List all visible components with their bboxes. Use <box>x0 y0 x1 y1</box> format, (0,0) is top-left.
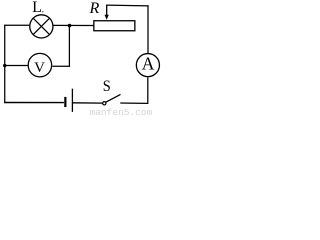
wire: battery to switch <box>72 102 102 104</box>
wire: voltmeter branch vertical <box>68 26 70 67</box>
wire: bottom rail right (switch to right rail) <box>120 102 148 104</box>
speck after L <box>42 11 43 12</box>
svg-text:R: R <box>89 0 100 17</box>
svg-text:manfen5.com: manfen5.com <box>90 107 153 115</box>
ammeter A <box>136 54 159 77</box>
wire: top-left horizontal (left rail to lamp) <box>4 24 29 26</box>
svg-text:S: S <box>103 78 111 95</box>
battery cell: short thick plate (negative) <box>64 97 66 107</box>
wire: slider to top-right corner <box>106 4 149 7</box>
voltmeter V <box>28 53 52 77</box>
wire: bottom rail left (to battery) <box>4 102 64 104</box>
svg-text:A: A <box>142 54 155 74</box>
wire: voltmeter left to rail <box>5 65 28 67</box>
node junction dot (top, voltmeter tap) <box>68 24 72 28</box>
wire: voltmeter branch horizontal <box>52 65 70 67</box>
rheostat slider arrow <box>105 5 109 20</box>
svg-text:V: V <box>34 60 45 76</box>
switch S <box>103 94 121 105</box>
node junction dot (left rail) <box>3 64 6 67</box>
wire: left vertical rail <box>4 25 6 103</box>
wire: right vertical rail lower <box>147 77 149 104</box>
svg-text:L: L <box>32 0 42 16</box>
wire: lamp to rheostat <box>53 24 94 26</box>
battery cell: long thin plate (positive) <box>71 89 73 112</box>
wire: right vertical rail upper <box>147 5 149 53</box>
rheostat R (resistor box) <box>94 21 135 31</box>
lamp L (circle with X) <box>30 15 53 38</box>
